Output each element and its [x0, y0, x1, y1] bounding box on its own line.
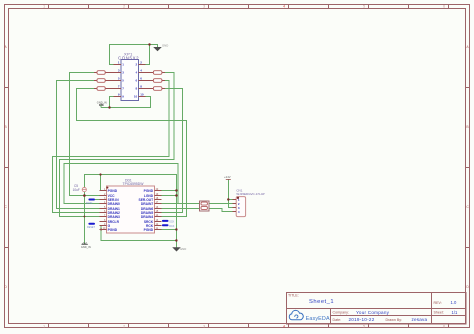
svg-text:PGND: PGND: [144, 228, 154, 232]
svg-text:CON5X2: CON5X2: [118, 56, 139, 61]
XP1 pin stubs left: [114, 64, 121, 66]
wire C5 vcc vertical: [83, 192, 85, 245]
wire lgnd row: [162, 195, 177, 197]
power flag GND below C5 vertical: [81, 243, 91, 249]
resistor R row72 left: [94, 71, 114, 75]
svg-text:PGND: PGND: [108, 189, 118, 193]
wire XP1 pin10 to gnd rail: [110, 97, 151, 108]
svg-text:4: 4: [283, 5, 285, 9]
svg-text:DRAIN4: DRAIN4: [141, 215, 153, 219]
DD1 pin stubs left: [100, 190, 107, 192]
EasyEDA logo: [289, 310, 330, 321]
svg-text:10: 10: [134, 95, 138, 99]
connector CN1 body: [236, 197, 245, 217]
CN1 pin stubs: [232, 199, 236, 201]
wire pgnd right row10: [162, 229, 177, 231]
resistor R row80 left: [94, 79, 114, 83]
svg-text:GND_IN: GND_IN: [81, 245, 91, 249]
wire XP1 pin6 to DRAIN2: [53, 81, 169, 213]
svg-text:4: 4: [283, 325, 285, 329]
svg-text:Drawn By:: Drawn By:: [386, 318, 403, 322]
wire drain6 to pack: [162, 208, 200, 210]
svg-text:DRAIN3: DRAIN3: [108, 215, 120, 219]
svg-text:2: 2: [123, 5, 125, 9]
resistors left of XP1: [94, 71, 165, 91]
power flag +24V above CN1: [224, 175, 231, 180]
svg-text:zesava: zesava: [412, 317, 428, 322]
DD1 pin stubs right: [155, 190, 162, 192]
svg-text:Sheet:: Sheet:: [434, 311, 444, 315]
resistor R row72 right: [146, 71, 165, 75]
wire pgnd right row1: [162, 190, 177, 192]
wire to top ground: [150, 45, 158, 48]
wire G stub link: [100, 225, 101, 227]
wire vcc row: [84, 195, 99, 197]
wire pack to CN1 pin4 jog: [209, 209, 233, 212]
capacitor C5: [73, 184, 87, 192]
svg-text:1: 1: [43, 325, 45, 329]
wire XP1 pin3 to VCC row: [70, 73, 100, 196]
net label SER.IN: [86, 199, 95, 206]
wire gnd bottom stem: [175, 241, 177, 248]
svg-text:2: 2: [123, 325, 125, 329]
wire ser.in stub: [95, 199, 100, 201]
svg-text:6: 6: [443, 325, 445, 329]
svg-text:10uF: 10uF: [73, 188, 80, 192]
wire XP1 pin9 to gnd rail: [101, 97, 114, 108]
svg-text:Company:: Company:: [333, 311, 349, 315]
svg-text:RCK: RCK: [169, 225, 174, 228]
svg-text:1: 1: [43, 5, 45, 9]
svg-text:SCK: SCK: [169, 221, 174, 224]
wire XP1 pin7 to DRAIN4: [77, 89, 187, 217]
title block outline: [287, 293, 467, 325]
svg-text:Sheet_1: Sheet_1: [309, 299, 334, 305]
svg-text:WJ15EDGVC-3.5-4P: WJ15EDGVC-3.5-4P: [236, 192, 264, 196]
svg-text:5: 5: [363, 5, 365, 9]
title block texts: [288, 294, 444, 322]
resistor R row88 left: [94, 87, 114, 91]
svg-text:DRAIN0: DRAIN0: [108, 202, 120, 206]
power flag GND at XP1 bottom: [97, 100, 107, 107]
svg-text:GND: GND: [162, 44, 168, 48]
svg-text:Your Company: Your Company: [356, 310, 390, 315]
wire drain7 to pack: [162, 203, 200, 205]
net label SRCLR: [87, 223, 96, 229]
junction top gnd: [148, 43, 150, 45]
svg-text:Date:: Date:: [333, 318, 342, 322]
svg-text:5: 5: [363, 325, 365, 329]
svg-text:GND_IN: GND_IN: [97, 100, 107, 104]
svg-text:6: 6: [443, 5, 445, 9]
svg-text:MOSI: MOSI: [86, 202, 92, 205]
svg-text:1.0: 1.0: [451, 300, 457, 305]
svg-text:TITLE:: TITLE:: [288, 294, 299, 298]
svg-text:TPIC6595DW: TPIC6595DW: [123, 182, 145, 186]
svg-text:2019-10-22: 2019-10-22: [349, 317, 375, 322]
wire pack to CN1 pin2: [209, 203, 236, 205]
wire XP1 pin5 to DRAIN1: [57, 81, 100, 209]
svg-text:1/1: 1/1: [452, 310, 458, 315]
wire +24V stem to CN1 pin1 and pin3: [228, 179, 232, 207]
svg-text:DRAIN7: DRAIN7: [141, 202, 153, 206]
svg-text:10: 10: [140, 93, 144, 97]
op-amp/IC DD1 body: [106, 186, 154, 233]
XP1 pin stubs right: [139, 64, 146, 66]
net label SRCK: [162, 220, 175, 224]
svg-text:GND: GND: [180, 247, 186, 251]
resistor R row88 right: [146, 87, 165, 91]
wire DRAIN0 to DRAIN7 tie: [64, 164, 178, 204]
ground GND top: [153, 44, 168, 52]
wire G pin to gnd rail: [101, 226, 176, 241]
junction dots: [108, 106, 110, 108]
net label RCK: [162, 224, 175, 228]
wire XP1 top gnd loop: [110, 45, 150, 65]
svg-text:EasyEDA: EasyEDA: [306, 316, 330, 322]
connector XP1 body: [121, 60, 139, 101]
resistor pack RN: [200, 201, 209, 211]
wire XP1 pin8 to DRAIN5: [162, 89, 183, 213]
wire pgnd left feed: [99, 175, 102, 191]
svg-text:3: 3: [203, 5, 205, 9]
ground GND bottom right: [172, 247, 186, 252]
svg-text:PGND: PGND: [108, 228, 118, 232]
svg-text:+24V: +24V: [224, 175, 231, 179]
resistor R row80 right: [146, 79, 165, 83]
svg-text:3: 3: [203, 325, 205, 329]
wire gnd bus top horizontal: [84, 175, 176, 241]
svg-text:PGND: PGND: [144, 189, 154, 193]
svg-text:REV:: REV:: [434, 301, 442, 305]
wire XP1 pin4 to DRAIN3: [60, 73, 174, 217]
svg-text:RESET: RESET: [87, 226, 96, 229]
